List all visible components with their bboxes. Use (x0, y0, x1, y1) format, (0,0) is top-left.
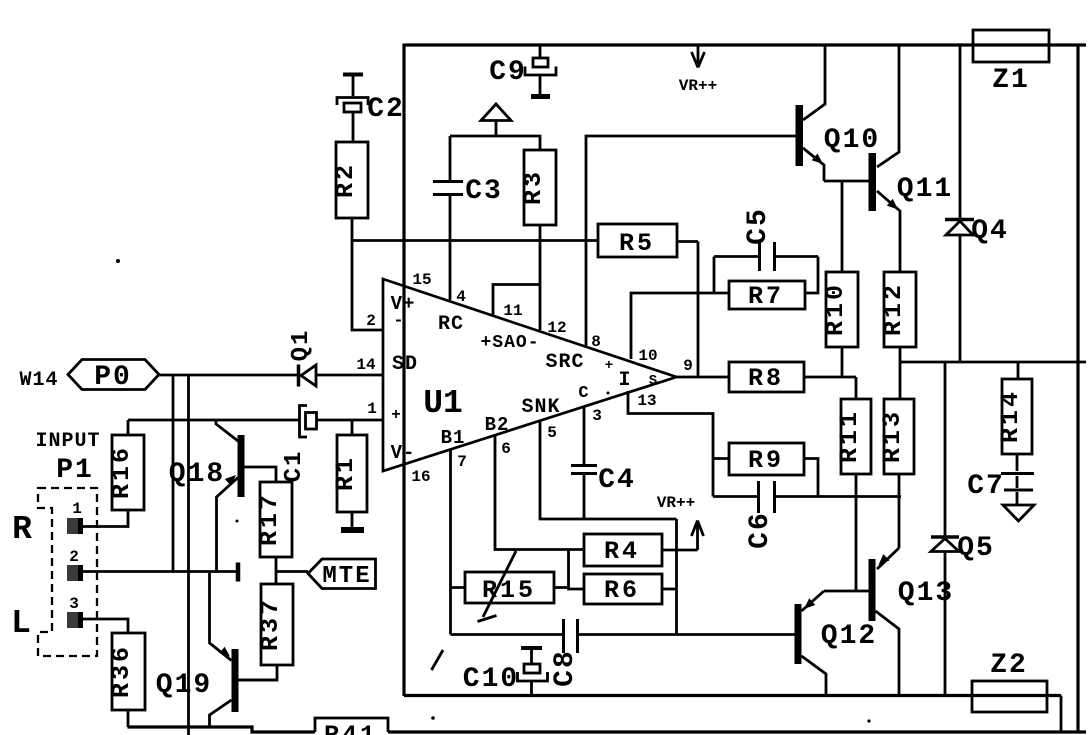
resistor R4 (584, 534, 662, 566)
svg-text:4: 4 (456, 288, 466, 306)
resistor R15 (465, 572, 554, 603)
resistor R14 (1017, 362, 1020, 379)
svg-text:SD: SD (392, 353, 418, 376)
resistor R9 (713, 459, 818, 497)
svg-text:7: 7 (457, 453, 467, 471)
power symbol (481, 104, 511, 121)
wire output rail right (901, 361, 1086, 364)
svg-text:V-: V- (391, 442, 416, 464)
svg-text:C5: C5 (743, 207, 774, 245)
resistor R5 (598, 224, 677, 257)
svg-text:C6: C6 (745, 511, 776, 549)
svg-text:R7: R7 (748, 282, 784, 311)
svg-text:Q5: Q5 (957, 533, 995, 564)
arrow VR++ top (692, 46, 705, 68)
svg-text:C: C (578, 384, 589, 403)
wire P0 drop (172, 375, 175, 572)
resistor R41 (315, 718, 388, 732)
svg-text:R6: R6 (604, 576, 640, 605)
svg-text:12: 12 (547, 319, 566, 337)
diode Q5 (944, 362, 947, 696)
svg-text:R12: R12 (879, 282, 908, 336)
svg-text:SNK: SNK (521, 396, 560, 419)
svg-text:Q19: Q19 (156, 670, 212, 701)
svg-text:R41: R41 (324, 721, 378, 735)
wire input rail to pin 1 of U1 (128, 419, 383, 422)
svg-text:B2: B2 (485, 414, 510, 436)
resistor R8 (677, 376, 857, 379)
svg-text:RC: RC (438, 313, 464, 336)
svg-text:L: L (11, 605, 31, 642)
ground arrow C7 (1003, 505, 1034, 521)
svg-text:VR++: VR++ (679, 77, 717, 95)
wire R2 to pin 2 (352, 218, 383, 330)
svg-text:C2: C2 (367, 94, 405, 125)
svg-text:R13: R13 (878, 409, 907, 463)
resistor R1 (351, 420, 354, 527)
svg-text:-: - (393, 312, 404, 331)
wire Q1 node drop (187, 375, 190, 735)
wire pin 8 to Q10 base (586, 136, 796, 347)
svg-text:1: 1 (367, 400, 377, 418)
wire C6 line (713, 495, 901, 498)
svg-text:+: + (391, 406, 401, 424)
wire pin 7 (449, 449, 452, 635)
svg-text:R9: R9 (748, 446, 784, 475)
svg-text:P1: P1 (56, 455, 94, 486)
resistor R11 (855, 377, 858, 590)
connector P1 dashed outline (38, 488, 97, 656)
resistor R37 (261, 584, 293, 665)
resistor R12 (884, 272, 916, 347)
svg-text:R16: R16 (107, 445, 136, 499)
svg-text:MTE: MTE (322, 563, 371, 590)
svg-text:R36: R36 (107, 644, 136, 698)
svg-text:C4: C4 (598, 465, 636, 496)
svg-text:16: 16 (411, 468, 430, 486)
fuse Z2 (972, 681, 1047, 712)
op-amp U1 (383, 279, 677, 471)
transistor Q10 (796, 105, 804, 166)
capacitor C2 (343, 73, 363, 77)
svg-text:R: R (12, 511, 32, 548)
svg-text:Q11: Q11 (897, 174, 953, 205)
wire bias network bottom (451, 633, 796, 636)
speck marks (525, 180, 529, 184)
svg-text:2: 2 (366, 312, 376, 330)
svg-text:R3: R3 (519, 169, 548, 205)
wire Q10 emitter to Q11 base (824, 180, 869, 183)
capacitor C4 (583, 406, 586, 519)
resistor R6 (584, 574, 662, 604)
capacitor C6 (759, 481, 775, 513)
svg-text:8: 8 (591, 333, 601, 351)
svg-text:11: 11 (503, 302, 522, 320)
wire VR++ top rail (405, 43, 1086, 46)
svg-text:Q4: Q4 (971, 216, 1009, 247)
svg-text:1: 1 (72, 500, 82, 518)
wire VR riser (675, 519, 678, 635)
wire pin 13 (628, 391, 713, 497)
wire bottom rail (128, 727, 1087, 732)
capacitor C10 (521, 646, 542, 650)
wire C3 top to R3 (450, 136, 540, 150)
resistor R16 (112, 435, 144, 510)
svg-text:Q18: Q18 (169, 459, 225, 490)
svg-text:6: 6 (501, 440, 511, 458)
svg-text:R37: R37 (256, 597, 285, 651)
svg-text:R14: R14 (996, 389, 1025, 443)
diode Q1 (297, 365, 301, 387)
stray mark (432, 650, 444, 670)
wire P0 to diode Q1 (159, 374, 297, 377)
svg-text:C1: C1 (281, 450, 308, 483)
wire right edge (1076, 45, 1079, 732)
svg-text:Z2: Z2 (990, 650, 1028, 681)
resistor R3 (524, 150, 556, 225)
wire pin 11 notch (493, 285, 540, 316)
wire R5 output node (697, 242, 700, 378)
svg-text:I: I (618, 369, 631, 392)
svg-text:R2: R2 (331, 162, 360, 198)
terminal bar (236, 563, 241, 582)
wire R3 to pin 12 (539, 225, 542, 330)
flag MTE (276, 570, 308, 573)
svg-text:+: + (605, 358, 613, 374)
svg-text:3: 3 (69, 595, 79, 613)
wire pin 6 (495, 435, 584, 550)
svg-text:R8: R8 (748, 364, 784, 393)
transistor Q12 (802, 591, 825, 611)
wire main box left edge (402, 44, 405, 697)
svg-text:Q10: Q10 (824, 125, 880, 156)
svg-text:Q12: Q12 (821, 621, 877, 652)
svg-text:P0: P0 (94, 362, 132, 393)
wire pin 5 (540, 421, 677, 519)
svg-text:S: S (649, 373, 657, 389)
svg-text:R10: R10 (821, 282, 850, 336)
svg-text:VR++: VR++ (657, 494, 695, 512)
resistor R13 (884, 399, 914, 474)
svg-text:R17: R17 (255, 492, 284, 546)
capacitor C3 (449, 136, 452, 300)
svg-text:Q1: Q1 (288, 329, 315, 362)
capacitor C9 (525, 45, 556, 94)
svg-text:B1: B1 (441, 427, 466, 449)
wire pin 10 (631, 293, 698, 359)
capacitor C1 (300, 406, 308, 438)
capacitor C8 (564, 619, 578, 653)
diode Q4 (959, 45, 962, 362)
svg-text:R11: R11 (835, 409, 864, 463)
resistor R17 (260, 482, 292, 557)
ground bar below R1 (341, 527, 364, 533)
fuse Z1 (973, 30, 1049, 62)
svg-text:15: 15 (412, 271, 431, 289)
svg-text:2: 2 (69, 548, 79, 566)
svg-text:Z1: Z1 (992, 65, 1030, 96)
svg-text:C7: C7 (967, 471, 1005, 502)
arrow VR++ bottom (692, 521, 704, 551)
svg-text:R1: R1 (331, 455, 360, 491)
svg-text:R5: R5 (619, 229, 655, 258)
svg-text:U1: U1 (423, 385, 463, 422)
svg-text:10: 10 (638, 347, 657, 365)
svg-text:R4: R4 (604, 537, 640, 566)
transistor Q19 (210, 573, 232, 661)
svg-text:+SAO-: +SAO- (480, 333, 539, 353)
transistor Q11 (869, 153, 877, 211)
transistor Q18 (238, 435, 245, 497)
svg-text:3: 3 (592, 407, 602, 425)
wire Z2 output drop (1060, 696, 1063, 734)
wire pin2 input line (82, 570, 237, 573)
svg-text:SRC: SRC (545, 351, 584, 374)
svg-text:13: 13 (637, 392, 656, 410)
svg-text:C8: C8 (550, 649, 581, 687)
capacitor C5 (760, 242, 775, 271)
capacitor C7 (1001, 474, 1034, 491)
wire main box bottom edge (404, 694, 1061, 697)
resistor R2 (336, 142, 368, 218)
flag P0 (68, 360, 159, 390)
wire pin3 to R36 (83, 619, 128, 633)
resistor R7 (698, 257, 818, 294)
svg-text:C10: C10 (463, 664, 519, 695)
svg-text:14: 14 (356, 356, 376, 374)
svg-text:9: 9 (683, 357, 693, 375)
wire pin1 to R16 (83, 510, 128, 527)
trimmer arrow of R15 (478, 551, 517, 622)
resistor R10 (841, 181, 844, 377)
wire feedback line to R5 (352, 239, 598, 242)
transistor Q13 (877, 548, 899, 569)
svg-text:C3: C3 (465, 176, 503, 207)
svg-text:C9: C9 (489, 57, 527, 88)
svg-text:5: 5 (547, 424, 557, 442)
svg-text:W14: W14 (19, 369, 58, 392)
svg-text:INPUT: INPUT (35, 430, 100, 453)
resistor R36 (112, 633, 145, 710)
